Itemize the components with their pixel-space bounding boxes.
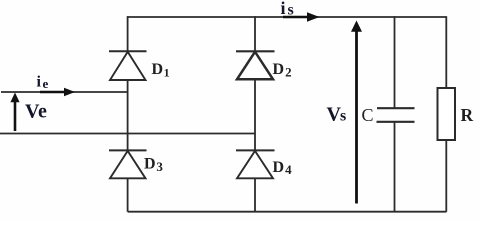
diode D3	[109, 150, 147, 178]
wire AC input lower (Ve- to node between D2 and D4)	[0, 133, 255, 135]
wire AC input upper (Ve+ to node between D1 and D3)	[1, 91, 128, 93]
wire left rail upper (top rail to D1 cathode)	[127, 16, 129, 51]
svg-text:R: R	[461, 105, 474, 125]
wire right bridge rail middle (D2 anode to D4 cathode)	[254, 80, 256, 151]
svg-text:is: is	[281, 0, 294, 19]
wire left rail lower (D3 anode to bottom rail)	[127, 178, 129, 211]
current arrow i_e	[40, 88, 75, 97]
wire capacitor branch lower	[394, 122, 396, 212]
wire left rail middle (D1 anode to D3 cathode)	[127, 80, 129, 150]
voltage arrow Ve	[10, 93, 19, 132]
diode D2	[236, 51, 275, 79]
current arrow i_s	[283, 12, 320, 21]
wire resistor branch upper	[445, 16, 447, 88]
diode D4	[236, 150, 275, 178]
diode D1	[109, 51, 147, 80]
svg-text:D3: D3	[144, 156, 163, 175]
svg-text:ie: ie	[37, 74, 49, 92]
voltage arrow Vs	[351, 21, 362, 204]
resistor R	[438, 88, 456, 140]
svg-text:D1: D1	[152, 61, 170, 80]
svg-text:D2: D2	[273, 61, 292, 80]
svg-text:C: C	[362, 105, 374, 125]
wire bottom rail	[128, 211, 447, 213]
wire right bridge rail upper (top rail to D2 cathode)	[254, 16, 256, 51]
svg-text:D4: D4	[273, 159, 293, 177]
capacitor C plates	[377, 108, 415, 122]
svg-text:Ve: Ve	[25, 101, 47, 123]
wire top rail	[127, 16, 446, 18]
svg-text:Vs: Vs	[327, 104, 347, 126]
wire capacitor branch upper	[394, 16, 396, 108]
wire resistor branch lower	[445, 140, 447, 212]
wire right bridge rail lower (D4 anode to bottom rail)	[254, 178, 256, 211]
